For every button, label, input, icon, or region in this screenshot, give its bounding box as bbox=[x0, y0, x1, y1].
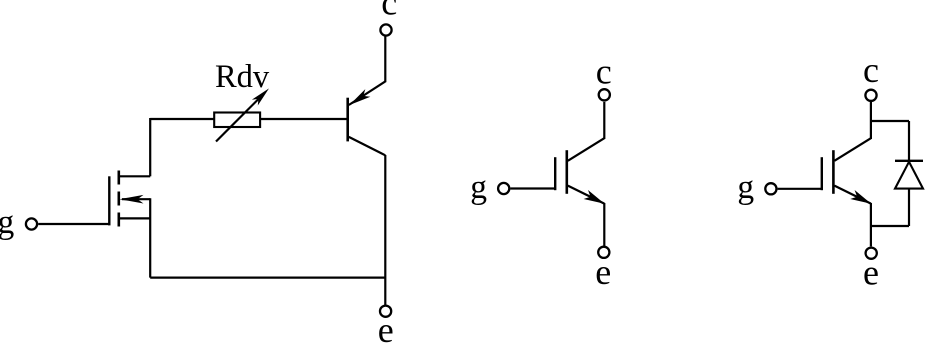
svg-text:c: c bbox=[381, 0, 397, 23]
svg-text:g: g bbox=[470, 169, 487, 206]
svg-text:c: c bbox=[863, 50, 879, 90]
svg-text:g: g bbox=[737, 169, 754, 206]
svg-text:g: g bbox=[0, 204, 15, 241]
svg-text:c: c bbox=[596, 52, 612, 92]
svg-text:Rdv: Rdv bbox=[215, 59, 270, 95]
svg-text:e: e bbox=[863, 253, 879, 293]
svg-text:e: e bbox=[378, 310, 394, 343]
svg-text:e: e bbox=[595, 252, 611, 292]
